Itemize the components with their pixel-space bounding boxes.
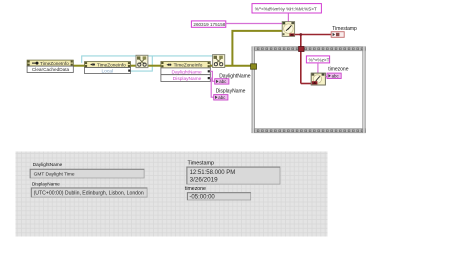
junction red wire [299, 33, 302, 36]
property node U3 property DaylightName [161, 68, 210, 75]
flat sequence frame top band [252, 46, 366, 51]
string constant 260319 175158 [191, 21, 225, 27]
string constant time format 1 [252, 4, 321, 13]
wire pink U3 DaylightName to indicator [210, 71, 215, 81]
panel timestamp indicator box [187, 167, 280, 184]
svg-text:-05:00:00: -05:00:00 [189, 195, 215, 201]
wire pink from timezone format constant to clock node 2 [317, 63, 319, 73]
svg-text:DisplayName: DisplayName [32, 181, 60, 186]
indicator DisplayName abc [214, 95, 228, 101]
front panel background [16, 152, 328, 237]
svg-text:DaylightName: DaylightName [33, 162, 63, 167]
wire pink from 260319 constant to clock node 1 [226, 23, 283, 25]
svg-text:DisplayName: DisplayName [216, 89, 246, 95]
string constant timezone format inside frame [306, 56, 329, 63]
wire pink clock node 2 to timezone indicator [325, 76, 327, 78]
svg-text:%^<%z>T: %^<%z>T [309, 57, 330, 62]
label DisplayName (diagram) [216, 89, 246, 95]
tunnel red on frame top edge [299, 47, 304, 52]
flat sequence frame left border [252, 47, 255, 133]
svg-text:12:51:58.000 PM: 12:51:58.000 PM [190, 170, 236, 176]
property node U2 property Local [85, 68, 131, 75]
svg-text:abc: abc [219, 79, 227, 84]
svg-text:ClearCachedData: ClearCachedData [32, 67, 70, 72]
svg-text:260319 175158: 260319 175158 [193, 22, 225, 27]
property node U2 header TimeZoneInfo [85, 62, 131, 68]
converter node A [136, 55, 148, 67]
svg-text:abc: abc [218, 95, 226, 100]
svg-text:timezone: timezone [328, 66, 349, 72]
wire pink U3 DisplayName to indicator [210, 78, 214, 97]
flat sequence frame right border [362, 47, 365, 133]
label timezone (diagram) [328, 66, 349, 72]
invoke node U1 header TimeZoneInfo [27, 60, 73, 66]
svg-text:Timestamp: Timestamp [188, 161, 214, 167]
indicator timezone abc [327, 73, 341, 79]
label Timestamp (diagram) [332, 26, 357, 32]
svg-text:%^<%d%m%y %H:%M:%S>T: %^<%d%m%y %H:%M:%S>T [255, 6, 317, 11]
svg-text:abc: abc [332, 74, 340, 79]
svg-text:timezone: timezone [185, 186, 206, 192]
converter node B [213, 55, 225, 68]
svg-text:(UTC+00:00) Dublin, Edinburgh,: (UTC+00:00) Dublin, Edinburgh, Lisbon, L… [34, 191, 144, 197]
property node U3 property DisplayName [161, 75, 210, 82]
clock node 1 scan time string [282, 22, 294, 37]
wire timestamp red from clock node 1 to indicator and down [295, 35, 332, 84]
flat sequence frame bottom band [252, 128, 366, 133]
panel string control DaylightName [30, 169, 144, 178]
indicator DaylightName abc [215, 79, 229, 85]
panel label timezone [185, 186, 206, 192]
svg-text:Local: Local [102, 68, 113, 74]
label DaylightName (diagram) [219, 73, 251, 79]
panel timezone indicator box [187, 192, 251, 200]
svg-text:3/26/2019: 3/26/2019 [190, 176, 219, 183]
svg-text:GMT Daylight Time: GMT Daylight Time [34, 172, 75, 178]
svg-text:TimeZoneInfo: TimeZoneInfo [97, 62, 126, 67]
tunnel olive on frame left edge [251, 64, 257, 69]
wire cyan net (TimeZoneInfo object refs) [82, 56, 214, 71]
indicator Timestamp terminal [331, 32, 344, 38]
wire olive main refnum line [73, 65, 253, 67]
clock node 2 format date/time string [311, 73, 325, 85]
panel label Timestamp [188, 161, 214, 167]
property node U3 header TimeZoneInfo [161, 62, 210, 68]
svg-text:TimeZoneInfo: TimeZoneInfo [174, 63, 203, 68]
wire olive branch up to clock node [232, 31, 282, 66]
svg-text:DisplayName: DisplayName [173, 76, 202, 82]
panel string control DisplayName [31, 188, 147, 197]
panel label DaylightName [33, 162, 63, 167]
invoke node U1 method ClearCachedData [27, 66, 73, 72]
svg-text:TimeZoneInfo: TimeZoneInfo [40, 61, 69, 66]
panel label DisplayName [32, 181, 60, 186]
wire pink from format constant to clock node 1 [287, 13, 289, 22]
